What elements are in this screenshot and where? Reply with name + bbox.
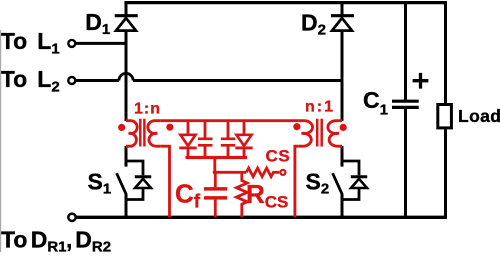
svg-text:CS: CS <box>266 146 291 165</box>
svg-text:n:1: n:1 <box>305 99 335 116</box>
body diode of S1 <box>126 161 151 200</box>
wire sense node line <box>213 171 247 174</box>
body diode of S2 <box>342 161 367 200</box>
wire To L2 with hop over D1 branch <box>76 79 342 82</box>
transformer T2 secondary winding <box>298 121 312 147</box>
resistor RCS <box>236 172 247 217</box>
capacitor right cell <box>221 121 236 158</box>
svg-text:D2: D2 <box>301 9 326 38</box>
resistor Load <box>438 105 452 128</box>
wire bottom return rail <box>77 216 448 219</box>
svg-text:Cf: Cf <box>175 178 201 212</box>
wire sense network top rail <box>161 119 299 122</box>
transformer T2 core <box>317 119 322 147</box>
transformer T1 core <box>140 119 144 147</box>
switch S2 <box>333 146 342 217</box>
capacitor Cf <box>204 172 227 217</box>
transformer T2 primary winding <box>328 121 342 147</box>
node To L1 terminal <box>68 40 75 47</box>
wire T1 secondary bottom return <box>161 146 170 217</box>
svg-text:1:n: 1:n <box>134 101 161 118</box>
wire hop <box>119 73 133 80</box>
capacitor C1 <box>392 101 419 217</box>
capacitor left cell <box>198 121 213 158</box>
left edge scan artifact <box>0 30 2 252</box>
red dot T2 right <box>340 124 346 130</box>
switch S1 <box>117 146 126 217</box>
wire T2 secondary bottom return <box>295 146 299 217</box>
wire rectifier bottom bar <box>186 156 248 159</box>
wire Load bottom <box>444 129 447 217</box>
resistor to CS pin <box>246 168 279 177</box>
red dot T2 left <box>294 124 300 130</box>
node To L2 terminal <box>68 77 75 84</box>
diode D1 <box>115 3 138 121</box>
node To DR1 DR2 terminal <box>68 214 75 221</box>
red dot T1 left <box>119 124 125 130</box>
svg-text:ToL1: ToL1 <box>1 28 60 57</box>
svg-text:ToDR1,DR2: ToDR1,DR2 <box>1 226 111 255</box>
svg-text:RCS: RCS <box>246 179 288 212</box>
node CS terminal <box>280 170 285 175</box>
svg-text:C1: C1 <box>363 87 388 118</box>
svg-text:ToL2: ToL2 <box>1 66 60 95</box>
wire C1 top branch <box>404 3 407 101</box>
transformer T1 secondary winding <box>148 121 161 147</box>
diode rectifier left cell <box>179 121 196 158</box>
transformer T1 primary winding <box>126 121 137 147</box>
svg-text:D1: D1 <box>85 9 110 38</box>
svg-text:S2: S2 <box>306 168 330 197</box>
wire To L1 <box>76 42 126 45</box>
wire top output rail <box>124 1 447 4</box>
C1 polarity plus <box>413 73 429 89</box>
diode D2 <box>331 3 354 121</box>
red dot T1 right <box>167 124 173 130</box>
wire center drop <box>213 158 216 173</box>
wire Load top branch <box>444 1 447 104</box>
diode rectifier right cell <box>235 121 252 158</box>
svg-text:S1: S1 <box>88 168 112 197</box>
svg-text:Load: Load <box>458 106 500 126</box>
